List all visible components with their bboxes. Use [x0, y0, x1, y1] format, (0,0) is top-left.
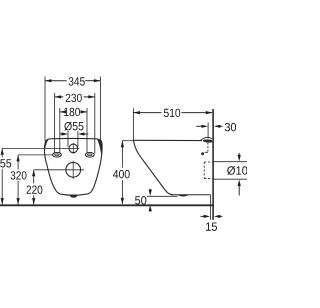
- dim text 230: [66, 94, 82, 102]
- side view: dim text 510: [164, 109, 180, 117]
- front view: dim 345 extension line right: [99, 77, 101, 142]
- wall finish line below floor: [210, 195, 212, 220]
- side view: dim 400 vertical line lower: [121, 180, 123, 204]
- left dim 320 extension line: [18, 154, 53, 156]
- side view bowl bottom line: [172, 194, 211, 196]
- side view rim hook wedge: [203, 140, 212, 143]
- drain circle crosshair vertical: [72, 161, 74, 179]
- dim line 230: [55, 95, 95, 98]
- side view drain shadow lens: [178, 195, 189, 197]
- wall line: [212, 109, 214, 220]
- dim text O100: [227, 166, 254, 175]
- dim 50 upper arrow: [149, 189, 152, 196]
- front view bowl outline: [44, 138, 102, 195]
- left dim 320 bottom arrow: [17, 198, 20, 205]
- dim text 15: [206, 223, 217, 231]
- front view: dim 180 extension line right: [86, 108, 88, 153]
- front view: dim O55 extension line right: [77, 131, 79, 147]
- left dim 320 top arrow: [17, 155, 20, 162]
- left dim 455 vertical line lower: [1, 169, 3, 205]
- side view: dim 400 extension line: [122, 140, 134, 142]
- front view: dim 230 extension line left: [54, 93, 56, 153]
- dim O100 upper extension line: [214, 161, 247, 163]
- dim 50 lower arrow: [149, 205, 152, 212]
- side view: dim 400 top arrow: [121, 141, 124, 148]
- dim text 50: [135, 196, 146, 204]
- left dim 320 vertical line lower: [17, 181, 19, 205]
- dim O100 lower arrow: [238, 180, 241, 196]
- side view dashed hanger foot: [205, 151, 209, 153]
- front view: dim 230 extension line right: [94, 93, 96, 153]
- dim text 180: [64, 108, 80, 116]
- dim 50 extension line: [147, 195, 178, 197]
- dim O100 lower extension line: [214, 178, 247, 180]
- floor line: [0, 204, 214, 206]
- left dim text 220: [27, 185, 43, 193]
- right fixing slot: [85, 153, 94, 158]
- flush hole O55 circle: [69, 144, 78, 153]
- front view bottom bump: [70, 195, 78, 198]
- left fixing slot: [53, 153, 62, 158]
- side view: dim text 30: [225, 123, 236, 131]
- front view: dim 180 extension line left: [59, 108, 61, 153]
- flush hole crosshair vertical: [72, 143, 74, 154]
- drain circle front view: [66, 162, 81, 177]
- left dim 455 bottom arrow: [1, 198, 4, 205]
- dim O100 upper arrow: [238, 153, 241, 162]
- front view top-right rim facet: [97, 139, 102, 155]
- front view: dim 345 extension line left: [44, 77, 46, 142]
- left dim 220 vertical line upper: [33, 170, 35, 184]
- side view rim hook curl line: [200, 137, 212, 141]
- side view: dim text 400: [113, 170, 130, 178]
- side view: dim 400 vertical line upper: [121, 141, 123, 168]
- side view dashed hanger line: [207, 143, 209, 153]
- left dim 220 top arrow: [32, 170, 35, 177]
- dim text O55: [64, 122, 83, 131]
- front view: dim O55 extension line left: [67, 131, 69, 147]
- left dim 455 vertical line upper: [1, 148, 3, 157]
- dim 15 left arrow: [201, 215, 211, 218]
- drain pipe dashed outline top: [204, 161, 213, 163]
- dim line 180: [60, 110, 87, 113]
- side view bowl rim top line: [133, 139, 202, 141]
- side view mounting dot: [201, 152, 204, 155]
- dim text 345: [69, 77, 85, 85]
- left dim 320 vertical line upper: [17, 155, 19, 169]
- left dim text 55: [0, 159, 11, 167]
- left dim 455 top arrow: [1, 148, 4, 155]
- side view bowl front curve: [133, 140, 173, 194]
- left fixing slot inner: [55, 154, 60, 156]
- left dim 220 vertical line lower: [33, 195, 35, 204]
- side view: dim line 510: [133, 111, 212, 114]
- right fixing slot inner: [88, 154, 93, 156]
- front view top-left rim facet: [45, 139, 49, 148]
- left dim text 320: [11, 171, 27, 179]
- left dim 220 bottom arrow: [32, 198, 35, 205]
- side view: dim 30 left arrow: [196, 125, 208, 128]
- drain pipe dashed outline left: [203, 162, 205, 179]
- left dim 220 extension line: [34, 169, 84, 171]
- dim 15 right arrow: [214, 215, 222, 218]
- side view: dim 30 tick: [207, 122, 209, 138]
- drain pipe dashed outline bottom: [204, 178, 213, 180]
- dim arrows O55: [60, 132, 89, 135]
- side view: dim 400 bottom arrow: [121, 198, 124, 205]
- side view: dim 30 right arrow: [214, 125, 223, 128]
- dim line 345: [45, 79, 100, 82]
- left dim 455 extension line: [2, 147, 79, 149]
- side view: dim 510 extension line left: [132, 108, 134, 141]
